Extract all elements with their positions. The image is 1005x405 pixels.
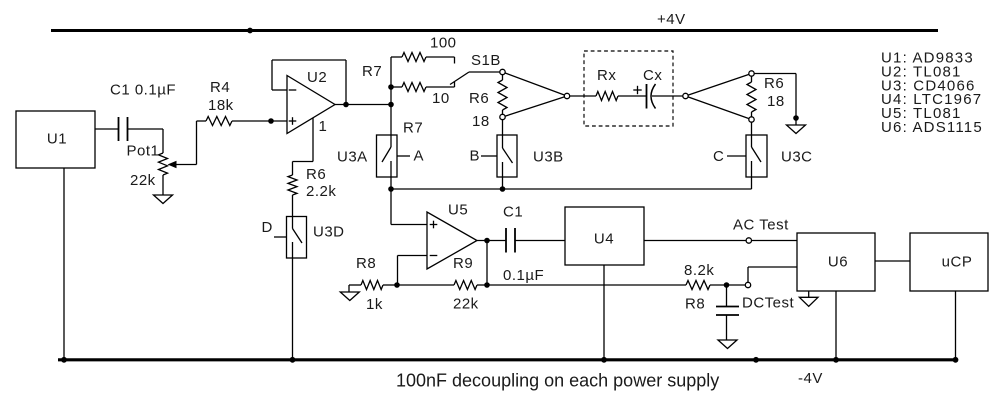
svg-text:100nF decoupling on each power: 100nF decoupling on each power supply xyxy=(396,371,719,391)
svg-text:U4: U4 xyxy=(594,231,614,248)
svg-text:Pot1: Pot1 xyxy=(127,143,160,160)
svg-text:R9: R9 xyxy=(453,255,473,272)
svg-text:D: D xyxy=(262,219,273,236)
svg-text:Rx: Rx xyxy=(597,67,616,84)
svg-text:1k: 1k xyxy=(366,296,383,313)
svg-text:R6: R6 xyxy=(306,166,326,183)
svg-text:DCTest: DCTest xyxy=(742,295,795,312)
svg-text:R4: R4 xyxy=(210,79,230,96)
svg-text:18: 18 xyxy=(472,113,490,130)
svg-text:U6: U6 xyxy=(828,254,848,271)
svg-text:R8: R8 xyxy=(356,255,376,272)
svg-text:R7: R7 xyxy=(362,63,382,80)
svg-text:U5: U5 xyxy=(448,202,468,219)
svg-text:Cx: Cx xyxy=(643,67,662,84)
svg-text:-4V: -4V xyxy=(798,370,823,387)
svg-text:C: C xyxy=(713,148,724,165)
svg-text:1: 1 xyxy=(319,118,328,135)
svg-text:0.1µF: 0.1µF xyxy=(503,267,544,284)
svg-text:R7: R7 xyxy=(403,120,423,137)
svg-text:U3B: U3B xyxy=(533,149,564,166)
svg-text:R8: R8 xyxy=(685,296,705,313)
svg-text:U2: U2 xyxy=(307,69,327,86)
svg-text:R6: R6 xyxy=(764,75,784,92)
svg-text:10: 10 xyxy=(432,90,450,107)
svg-text:+4V: +4V xyxy=(657,11,686,28)
svg-text:2.2k: 2.2k xyxy=(306,183,336,200)
svg-text:R6: R6 xyxy=(469,90,489,107)
svg-text:C1 0.1µF: C1 0.1µF xyxy=(110,82,176,99)
svg-text:22k: 22k xyxy=(130,172,156,189)
svg-text:U3D: U3D xyxy=(313,224,345,241)
svg-text:22k: 22k xyxy=(453,296,479,313)
svg-text:18: 18 xyxy=(767,93,785,110)
svg-text:100: 100 xyxy=(430,35,457,52)
svg-text:B: B xyxy=(470,148,481,165)
svg-text:S1B: S1B xyxy=(471,52,501,69)
svg-text:A: A xyxy=(414,148,425,165)
svg-text:U6: ADS1115: U6: ADS1115 xyxy=(881,119,983,136)
svg-text:18k: 18k xyxy=(208,97,234,114)
svg-text:8.2k: 8.2k xyxy=(684,262,714,279)
svg-text:U1: U1 xyxy=(47,131,67,148)
svg-text:uCP: uCP xyxy=(942,254,973,271)
svg-text:C1: C1 xyxy=(503,204,523,221)
svg-text:U3A: U3A xyxy=(337,149,368,166)
svg-text:U3C: U3C xyxy=(781,149,813,166)
svg-text:AC Test: AC Test xyxy=(733,217,789,234)
